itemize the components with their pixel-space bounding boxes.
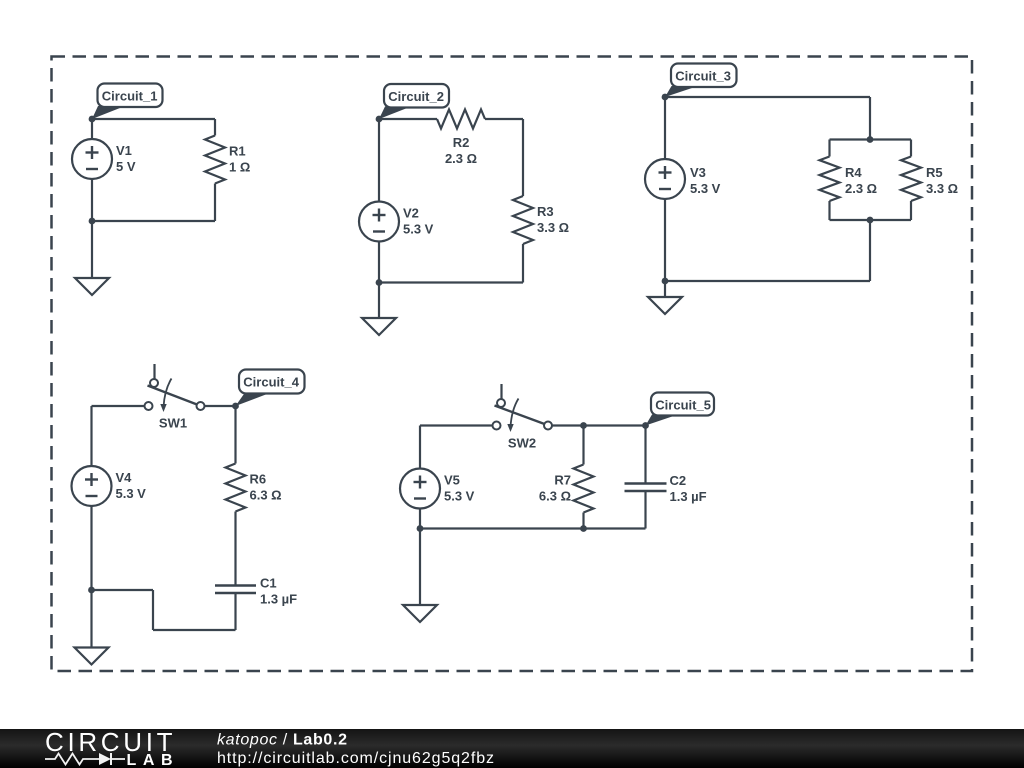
svg-text:V1: V1 xyxy=(116,143,132,158)
svg-text:C2: C2 xyxy=(670,473,687,488)
svg-text:http://circuitlab.com/cjnu62g5: http://circuitlab.com/cjnu62g5q2fbz xyxy=(217,750,494,767)
svg-text:R1: R1 xyxy=(229,144,246,159)
svg-text:5.3 V: 5.3 V xyxy=(116,486,147,501)
svg-text:Circuit_2: Circuit_2 xyxy=(388,89,444,104)
svg-text:R7: R7 xyxy=(554,473,571,488)
svg-text:2.3 Ω: 2.3 Ω xyxy=(845,181,877,196)
svg-text:5 V: 5 V xyxy=(116,159,136,174)
svg-text:Circuit_1: Circuit_1 xyxy=(102,89,158,104)
svg-text:3.3 Ω: 3.3 Ω xyxy=(537,220,569,235)
svg-text:C1: C1 xyxy=(260,576,277,591)
svg-text:LAB: LAB xyxy=(127,752,173,768)
svg-text:6.3 Ω: 6.3 Ω xyxy=(250,488,282,503)
svg-text:V2: V2 xyxy=(403,206,419,221)
svg-text:2.3 Ω: 2.3 Ω xyxy=(445,151,477,166)
svg-text:Circuit_5: Circuit_5 xyxy=(655,398,711,413)
svg-text:R5: R5 xyxy=(926,165,943,180)
svg-text:R2: R2 xyxy=(453,135,470,150)
svg-text:1.3 µF: 1.3 µF xyxy=(670,489,707,504)
svg-text:SW1: SW1 xyxy=(159,416,187,431)
svg-text:Circuit_3: Circuit_3 xyxy=(675,69,731,84)
svg-text:Circuit_4: Circuit_4 xyxy=(243,375,299,390)
svg-text:5.3 V: 5.3 V xyxy=(444,489,475,504)
svg-text:3.3 Ω: 3.3 Ω xyxy=(926,181,958,196)
svg-text:SW2: SW2 xyxy=(508,436,536,451)
svg-text:R6: R6 xyxy=(250,472,267,487)
svg-text:R4: R4 xyxy=(845,165,862,180)
svg-text:5.3 V: 5.3 V xyxy=(690,181,721,196)
svg-text:1 Ω: 1 Ω xyxy=(229,160,250,175)
svg-text:5.3 V: 5.3 V xyxy=(403,222,434,237)
svg-text:V4: V4 xyxy=(116,470,133,485)
svg-text:6.3 Ω: 6.3 Ω xyxy=(539,489,571,504)
svg-text:1.3 µF: 1.3 µF xyxy=(260,592,297,607)
svg-text:V5: V5 xyxy=(444,473,460,488)
svg-text:V3: V3 xyxy=(690,165,706,180)
svg-text:katopoc / Lab0.2: katopoc / Lab0.2 xyxy=(217,732,347,749)
svg-text:R3: R3 xyxy=(537,204,554,219)
